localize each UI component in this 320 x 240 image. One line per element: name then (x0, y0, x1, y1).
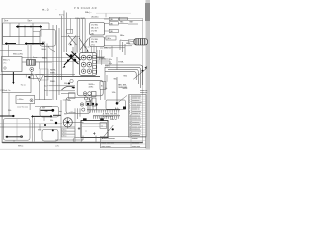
svg-text:xBRx: xBRx (89, 86, 94, 88)
svg-text:x9Bx xx: x9Bx xx (110, 119, 117, 121)
svg-text:xRx: xRx (3, 62, 6, 64)
svg-text:xxx xxxx: xxx xxxx (132, 142, 139, 144)
svg-text:B. xBL 9x xx: B. xBL 9x xx (103, 116, 113, 118)
svg-text:xxxx 9xx xxx: xxxx 9xx xxx (17, 106, 28, 108)
svg-text:9BRL: 9BRL (123, 88, 129, 90)
svg-text:9B•: 9B• (8, 110, 12, 112)
svg-text:xxxxx xx: xxxxx xx (140, 92, 147, 94)
svg-text:9m•: 9m• (4, 20, 8, 23)
svg-text:xxxx xxxxx: xxxx xxxxx (102, 146, 111, 148)
svg-text:xExx: xExx (62, 133, 66, 135)
svg-text:9u xx: 9u xx (21, 84, 26, 86)
svg-text:1BL 9B: 1BL 9B (91, 42, 98, 44)
svg-text:17Lx: 17Lx (91, 45, 95, 47)
svg-text:NBRL: NBRL (50, 70, 57, 72)
svg-text:9BxLxxRx: 9BxLxxRx (13, 54, 24, 56)
svg-text:xExx: xExx (62, 130, 66, 132)
svg-text:9BxL: 9BxL (41, 49, 47, 51)
svg-text:xExx: xExx (62, 136, 66, 138)
svg-text:9B•: 9B• (45, 111, 49, 113)
svg-text:···: ··· (55, 9, 57, 11)
svg-text:xBxxBxx: xBxxBxx (91, 16, 99, 18)
svg-text:9B(x: 9B(x (64, 83, 68, 85)
svg-text:xxxxx xxx: xxxxx xxx (132, 146, 140, 148)
svg-text:xxxxx xxxx xxx: xxxxx xxxx xxx (102, 142, 114, 144)
svg-text:xxx SC(: xxx SC( (63, 100, 70, 102)
svg-text:TEML: TEML (118, 61, 124, 63)
svg-text:9B•: 9B• (50, 120, 53, 122)
svg-text:xx: xx (85, 131, 87, 133)
svg-text:x 9Bxx: x 9Bxx (18, 99, 24, 101)
svg-text:9BRL: 9BRL (101, 59, 107, 61)
svg-text:9BRL: 9BRL (105, 65, 111, 67)
svg-text:17L 9BL: 17L 9BL (91, 25, 99, 27)
svg-text:9m•: 9m• (28, 20, 32, 23)
svg-text:17L 9B: 17L 9B (91, 31, 98, 33)
svg-text:9BxL•x: 9BxL•x (3, 60, 11, 62)
svg-text:P M DIAGR AIR: P M DIAGR AIR (74, 7, 97, 10)
svg-text:9B•: 9B• (42, 107, 45, 109)
svg-text:17L 9BL: 17L 9BL (91, 39, 99, 41)
svg-text:xXxxxXXxxxxxx: xXxxxXXxxxxxx (102, 138, 115, 140)
svg-text:PXRxxL 9x: PXRxxL 9x (1, 90, 11, 92)
svg-text:⊕←(): ⊕←() (42, 7, 49, 11)
svg-text:9Bkx: 9Bkx (120, 35, 124, 37)
svg-text:(3Dx: (3Dx (107, 38, 111, 40)
svg-text:9B•: 9B• (64, 114, 68, 116)
svg-text:xx9x: xx9x (55, 146, 59, 148)
svg-text:9Bk(—: 9Bk(— (85, 12, 92, 14)
svg-text:9Bx: 9Bx (109, 59, 112, 61)
svg-text:1BL (17): 1BL (17) (91, 28, 99, 30)
svg-text:9Bk: 9Bk (120, 21, 123, 23)
svg-text:17BL 9BRL: 17BL 9BRL (75, 18, 86, 20)
svg-text:9Bk•: 9Bk• (129, 22, 133, 24)
svg-text:xxxxxx: xxxxxx (132, 138, 138, 140)
svg-text:9B(: 9B( (42, 42, 46, 44)
